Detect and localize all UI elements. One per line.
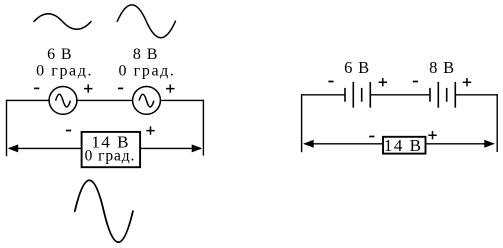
B2 tall plate 2	[454, 82, 456, 108]
B1 tall plate 1	[352, 82, 354, 108]
total voltage arrow right segment	[140, 147, 201, 149]
svg-text:0 град.: 0 град.	[85, 147, 136, 164]
polarity + (right of B1)	[379, 78, 387, 86]
wire top-right segment	[160, 99, 203, 101]
wire top-right segment (DC)	[455, 94, 497, 96]
polarity + (right of DC total box)	[428, 131, 436, 139]
polarity - (left of V2)	[118, 87, 123, 89]
big sine wave icon (sum waveform)	[75, 180, 133, 242]
sine symbol inside V2	[139, 94, 154, 107]
svg-text:0 град.: 0 град.	[36, 62, 93, 79]
B2 short plate 2	[446, 88, 448, 102]
B2 tall plate 1	[437, 82, 439, 108]
B1 tall plate 2	[369, 82, 371, 108]
total voltage box (DC)	[383, 137, 426, 154]
B1 short plate 1	[344, 88, 346, 102]
wire right vertical	[202, 100, 204, 156]
polarity + (right of B2)	[463, 78, 471, 86]
B1 short plate 2	[361, 88, 363, 102]
wire left vertical	[6, 100, 8, 157]
total voltage arrow right segment (DC)	[426, 143, 494, 145]
wire left vertical (DC)	[301, 94, 303, 152]
wire between B1 and B2	[370, 94, 430, 96]
arrowhead left	[8, 144, 19, 152]
arrowhead right (DC)	[484, 140, 495, 148]
battery B2	[430, 82, 455, 108]
AC source V1	[49, 87, 77, 115]
polarity - (left of B2)	[413, 81, 418, 83]
wire between V1 and V2	[77, 99, 133, 101]
total voltage arrow left segment	[9, 147, 82, 149]
AC source V2	[133, 87, 161, 115]
svg-text:8 В: 8 В	[429, 58, 455, 77]
wire top-left segment	[7, 99, 50, 101]
sine symbol inside V1	[56, 94, 71, 107]
polarity - (left of B1)	[328, 81, 333, 83]
wire right vertical (DC)	[496, 94, 498, 152]
B2 short plate 1	[429, 88, 431, 102]
svg-text:6 В: 6 В	[47, 46, 72, 63]
polarity - (left of DC total box)	[369, 136, 374, 138]
svg-text:6 В: 6 В	[344, 58, 370, 77]
sine wave icon above source V1	[34, 14, 91, 30]
polarity - (left of total box)	[66, 130, 71, 132]
polarity + (right of total box)	[146, 126, 154, 134]
svg-text:8 В: 8 В	[133, 46, 158, 63]
total voltage box (AC)	[82, 132, 141, 167]
svg-text:14 В: 14 В	[384, 136, 423, 155]
polarity + (right of V1)	[84, 84, 92, 92]
polarity + (right of V2)	[166, 84, 174, 92]
battery B1	[345, 82, 370, 108]
svg-text:0 град.: 0 град.	[118, 62, 175, 79]
arrowhead right	[192, 144, 203, 152]
wire top-left segment (DC)	[302, 94, 345, 96]
total voltage arrow left segment (DC)	[305, 143, 384, 145]
polarity - (left of V1)	[34, 87, 39, 89]
sine wave icon above source V2	[117, 5, 175, 38]
arrowhead left (DC)	[303, 140, 314, 148]
